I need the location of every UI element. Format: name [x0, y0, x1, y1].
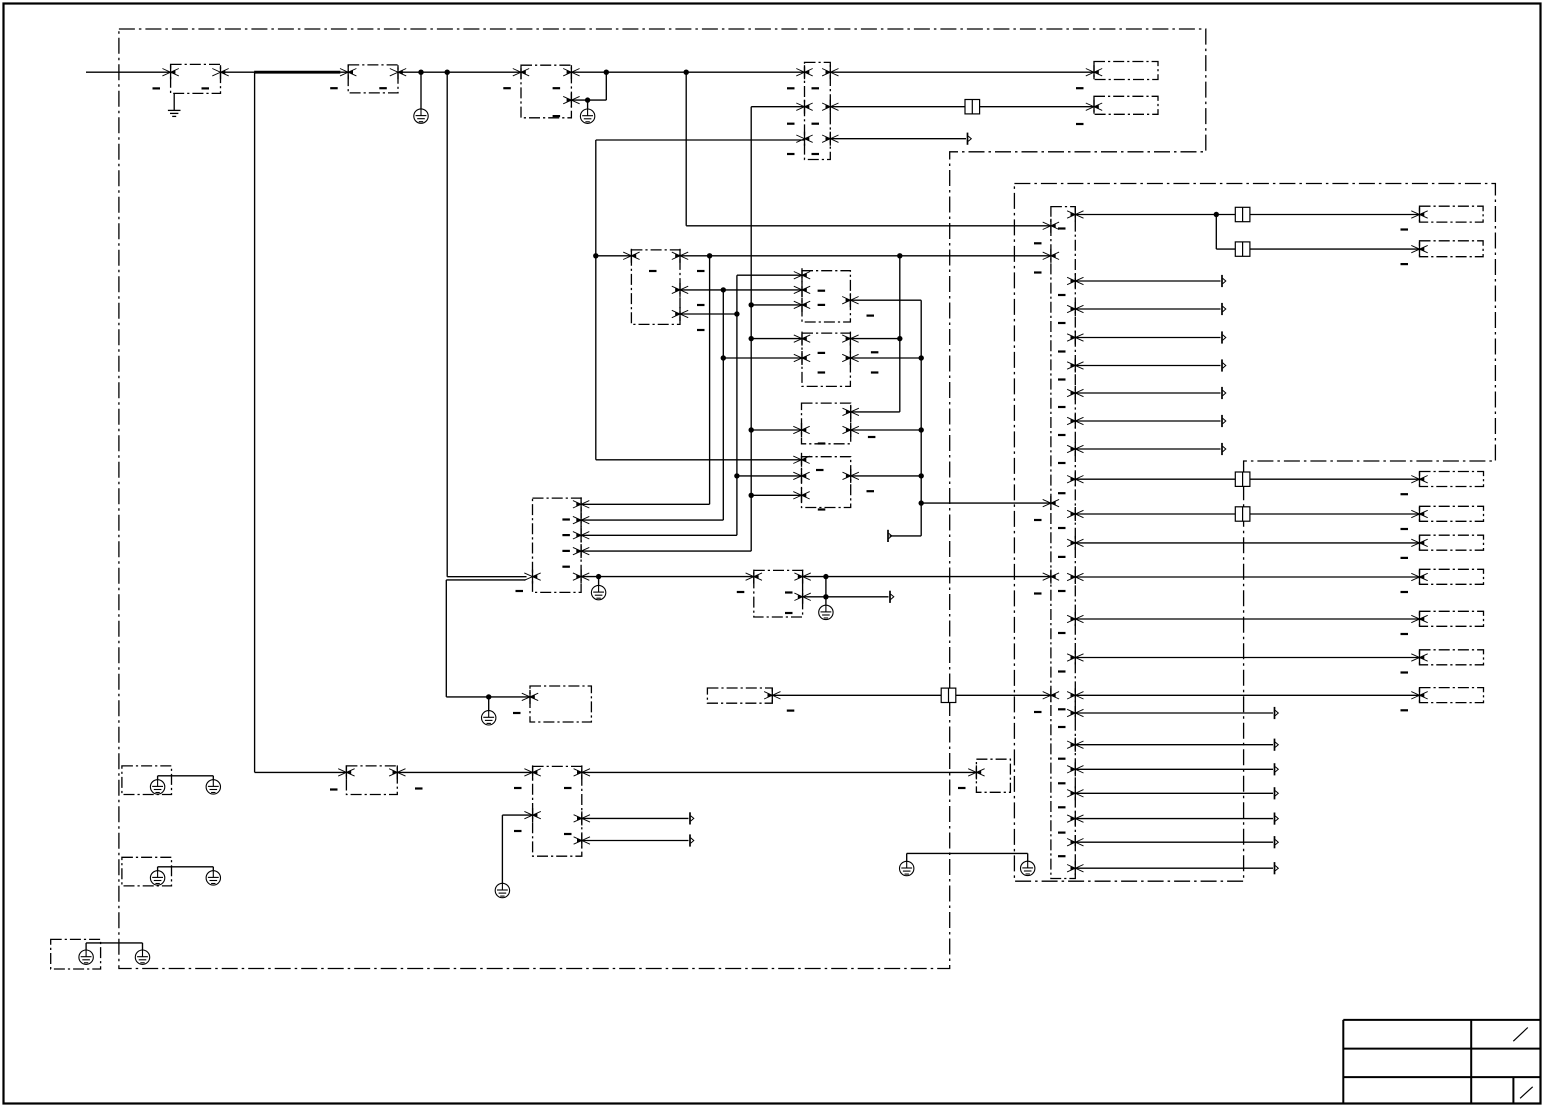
- ground PE: [495, 883, 509, 897]
- connector pin: [212, 65, 228, 79]
- pin in e: [1043, 688, 1059, 702]
- feedthrough terminal: [1235, 507, 1250, 521]
- wire: [1075, 280, 1220, 282]
- wire: [1075, 214, 1235, 216]
- wire: [751, 304, 802, 306]
- connector X5: [631, 250, 680, 325]
- cable end: [1275, 707, 1279, 719]
- pin: [1411, 208, 1427, 222]
- junction: [707, 253, 712, 258]
- connector pin: [796, 100, 812, 114]
- pin: [1411, 472, 1427, 486]
- enclosure boundary cabinet 2: [1014, 184, 1495, 882]
- wire: [398, 71, 521, 73]
- ground PE: [150, 780, 164, 794]
- pin: [1086, 65, 1102, 79]
- pin: [1086, 100, 1102, 114]
- pin labels: [1401, 557, 1409, 559]
- wire: [1075, 337, 1220, 339]
- junction: [596, 574, 601, 579]
- wire: [581, 550, 751, 552]
- cable end: [1275, 739, 1279, 751]
- junction: [919, 473, 924, 478]
- wire: [680, 313, 737, 315]
- wire: [596, 459, 802, 461]
- terminal T8: [1420, 569, 1484, 584]
- wire to PE: [420, 72, 422, 109]
- pin out: [1067, 861, 1083, 875]
- junction: [823, 594, 828, 599]
- wire: [581, 534, 737, 536]
- connector pin: [573, 544, 589, 558]
- wire to PE: [598, 577, 600, 586]
- wire drop x596: [595, 140, 597, 460]
- wire: [605, 72, 607, 100]
- wire: [751, 494, 801, 496]
- junction: [585, 97, 590, 102]
- terminal T4: [1420, 241, 1484, 257]
- pin labels: [1401, 633, 1409, 635]
- wire: [737, 475, 802, 477]
- ground PE: [206, 871, 220, 885]
- pin labels: [513, 712, 521, 714]
- wire: [1075, 818, 1273, 820]
- junction: [823, 574, 828, 579]
- pin labels: [1034, 242, 1042, 244]
- terminal T7: [1420, 535, 1484, 550]
- pin: [1411, 688, 1427, 702]
- wire to PE: [488, 697, 490, 711]
- wire: [581, 576, 754, 578]
- junction: [445, 70, 450, 75]
- PE box W2: [122, 857, 172, 886]
- pin labels: [1401, 528, 1409, 530]
- connector pin: [764, 688, 780, 702]
- wire return: [446, 579, 525, 581]
- connector pin: [796, 132, 812, 146]
- junction: [749, 427, 754, 432]
- pin out: [1067, 706, 1083, 720]
- connector pin: [623, 249, 639, 263]
- wire: [340, 71, 348, 73]
- pin out: [1067, 762, 1083, 776]
- wire: [1216, 248, 1235, 250]
- connector pin: [794, 298, 810, 312]
- pin out: [1067, 274, 1083, 288]
- title block slashes: [1513, 1028, 1528, 1042]
- connector pin: [794, 570, 810, 584]
- wire: [1075, 365, 1220, 367]
- ground PE: [414, 109, 428, 123]
- pin labels: [153, 87, 161, 89]
- wire: [1075, 841, 1273, 843]
- junction: [897, 253, 902, 258]
- connector pin: [822, 132, 838, 146]
- connector pin: [842, 332, 858, 346]
- wire x921: [920, 300, 922, 536]
- cable end: [1275, 787, 1279, 799]
- connector strip X20: [1051, 207, 1075, 879]
- wire: [447, 576, 526, 578]
- junction: [919, 355, 924, 360]
- wire: [1075, 308, 1220, 310]
- junction: [749, 336, 754, 341]
- wire: [956, 694, 1051, 696]
- junction: [604, 70, 609, 75]
- wire: [142, 943, 144, 950]
- terminal T9: [1420, 611, 1484, 626]
- connector pin: [162, 65, 178, 79]
- wire: [255, 771, 347, 773]
- wire: [582, 840, 689, 842]
- ground PE: [580, 109, 594, 123]
- wire: [830, 106, 965, 108]
- connector pin: [524, 808, 540, 822]
- connector pin: [746, 570, 762, 584]
- wire ladder x723: [722, 290, 724, 520]
- wire: [1250, 214, 1420, 216]
- junction: [593, 253, 598, 258]
- terminal T2: [1094, 96, 1158, 114]
- pin: [1411, 242, 1427, 256]
- wire: [1250, 478, 1420, 480]
- junction: [749, 493, 754, 498]
- pin out: [1067, 359, 1083, 373]
- connector pin: [843, 469, 859, 483]
- wire: [397, 771, 532, 773]
- wire: [596, 139, 805, 141]
- wire: [680, 289, 802, 291]
- connector X8: [530, 686, 591, 722]
- cable end: [690, 834, 694, 846]
- pin labels: [1401, 671, 1409, 673]
- pin labels: [503, 87, 511, 89]
- pin out: [1067, 386, 1083, 400]
- connector X10: [346, 766, 397, 795]
- connector pin: [563, 65, 579, 79]
- junction: [734, 311, 739, 316]
- pin out: [1067, 472, 1083, 486]
- wire: [1027, 853, 1029, 861]
- pin labels: [1401, 493, 1409, 495]
- connector pin: [794, 590, 810, 604]
- wire: [1075, 867, 1273, 869]
- ground PE: [900, 861, 914, 875]
- feedthrough terminal: [1235, 242, 1250, 256]
- wire to PE: [825, 597, 827, 605]
- wire: [830, 71, 1094, 73]
- wire: [1075, 712, 1273, 714]
- pin labels: [1401, 709, 1409, 711]
- cable end: [1275, 813, 1279, 825]
- pin in a: [1043, 219, 1059, 233]
- junction: [1214, 212, 1219, 217]
- connector K2: [802, 333, 850, 386]
- junction: [721, 355, 726, 360]
- connector pin: [574, 834, 590, 848]
- wire L1 feed: [86, 71, 171, 73]
- wire: [212, 867, 214, 871]
- cable end: [1222, 443, 1226, 455]
- cable end: [1222, 331, 1226, 343]
- wire: [212, 776, 214, 780]
- wire: [1075, 744, 1273, 746]
- cable end: [1222, 275, 1226, 287]
- wire: [890, 535, 922, 537]
- pin out: [1067, 688, 1083, 702]
- wire: [157, 867, 159, 871]
- ground PE: [819, 605, 833, 619]
- connector K3: [802, 403, 851, 444]
- pin: [1411, 651, 1427, 665]
- cable end: [1222, 359, 1226, 371]
- wire: [830, 138, 966, 140]
- cable end: [1222, 387, 1226, 399]
- feedthrough terminal: [941, 688, 956, 702]
- connector pin: [573, 497, 589, 511]
- wire: [446, 696, 530, 698]
- wire ladder x710: [709, 256, 711, 504]
- wire ladder x737: [736, 275, 738, 535]
- wire: [1075, 768, 1273, 770]
- wire: [1075, 448, 1220, 450]
- pin: [1411, 507, 1427, 521]
- connector X2: [348, 65, 398, 93]
- wire: [772, 694, 941, 696]
- pin out: [1067, 812, 1083, 826]
- pin out: [1067, 786, 1083, 800]
- connector pin: [389, 765, 405, 779]
- connector pin: [513, 65, 529, 79]
- connector pin: [968, 765, 984, 779]
- pin out: [1067, 612, 1083, 626]
- wire: [851, 411, 900, 413]
- wire: [1075, 392, 1220, 394]
- wire: [1075, 618, 1419, 620]
- connector pin: [573, 570, 589, 584]
- wire: [1075, 542, 1419, 544]
- connector pin: [574, 811, 590, 825]
- pin labels: [1058, 227, 1066, 229]
- junction: [684, 70, 689, 75]
- pin: [1411, 612, 1427, 626]
- cable end: [690, 812, 694, 824]
- connector pin: [793, 423, 809, 437]
- PE box W1: [122, 766, 172, 795]
- connector pin: [522, 690, 538, 704]
- wire: [850, 338, 899, 340]
- connector pin: [524, 570, 540, 584]
- connector pin: [563, 93, 579, 107]
- connector pin: [573, 513, 589, 527]
- wire ladder x751: [750, 107, 752, 551]
- pin labels: [787, 709, 795, 711]
- connector pin: [574, 765, 590, 779]
- pin out: [1067, 442, 1083, 456]
- junction: [734, 473, 739, 478]
- pin in b: [1043, 249, 1059, 263]
- cable end: [888, 530, 892, 542]
- pin in d: [1043, 570, 1059, 584]
- ground PE: [206, 780, 220, 794]
- pin out: [1067, 536, 1083, 550]
- pin out: [1067, 570, 1083, 584]
- junction: [919, 427, 924, 432]
- wire: [850, 357, 921, 359]
- cable end: [1275, 836, 1279, 848]
- connector pin: [842, 293, 858, 307]
- wire: [751, 338, 802, 340]
- connector K1: [802, 271, 850, 322]
- wire to PE: [587, 100, 589, 109]
- connector X4: [805, 62, 831, 159]
- connector pin: [390, 65, 406, 79]
- wire: [596, 255, 632, 257]
- wire: [751, 429, 801, 431]
- wire: [825, 577, 827, 597]
- connector pin: [524, 765, 540, 779]
- wire: [1075, 694, 1419, 696]
- connector K4: [802, 457, 851, 508]
- pin out: [1067, 414, 1083, 428]
- pin labels: [958, 787, 966, 789]
- wire: [85, 943, 87, 950]
- wire: [803, 576, 1051, 578]
- terminal T1: [1094, 62, 1158, 80]
- wire: [571, 71, 804, 73]
- pin labels: [1401, 228, 1409, 230]
- terminal X12: [976, 759, 1010, 792]
- pin labels: [1401, 591, 1409, 593]
- wire: [1250, 513, 1420, 515]
- connector pin: [793, 453, 809, 467]
- earth ground at X1: [168, 93, 181, 116]
- wire: [502, 814, 532, 816]
- pin out 1: [1067, 208, 1083, 222]
- wire drop x686: [685, 72, 687, 226]
- wire: [581, 519, 723, 521]
- wire: [1250, 248, 1420, 250]
- junction: [418, 70, 423, 75]
- cable end: [1222, 415, 1226, 427]
- wire: [221, 71, 255, 73]
- wire to PE: [501, 815, 503, 883]
- pin labels: [737, 591, 745, 593]
- ground PE: [1020, 861, 1034, 875]
- wire: [980, 106, 1094, 108]
- wire: [158, 775, 214, 777]
- pin out: [1067, 331, 1083, 345]
- feedthrough terminal: [1235, 207, 1250, 221]
- feedthrough terminal: [1235, 472, 1250, 486]
- connector pin: [842, 351, 858, 365]
- connector pin: [822, 100, 838, 114]
- cable end: [1275, 862, 1279, 874]
- pin labels: [816, 469, 824, 471]
- pin: [1411, 570, 1427, 584]
- connector pin: [672, 307, 688, 321]
- pin labels: [330, 788, 338, 790]
- wire: [158, 866, 214, 868]
- wire: [1075, 420, 1220, 422]
- connector X3: [521, 65, 571, 118]
- pin in c: [1043, 496, 1059, 510]
- terminal X9: [707, 688, 772, 703]
- ground PE: [79, 950, 93, 964]
- wire drop x254: [254, 72, 256, 772]
- PE box W3: [51, 939, 101, 969]
- wire: [907, 852, 1028, 854]
- wire: [1075, 792, 1273, 794]
- connector pin: [573, 528, 589, 542]
- wire: [582, 771, 977, 773]
- junction: [897, 336, 902, 341]
- wire PE link: [906, 853, 908, 861]
- ground PE: [482, 711, 496, 725]
- wire: [86, 942, 142, 944]
- title block: [1343, 1020, 1540, 1104]
- wire: [851, 429, 922, 431]
- ground PE: [150, 871, 164, 885]
- wire: [921, 502, 1051, 504]
- connector pin: [843, 423, 859, 437]
- ground PE: [135, 950, 149, 964]
- wire branch: [1215, 215, 1217, 250]
- pin labels: [1076, 87, 1084, 89]
- wire: [851, 475, 922, 477]
- connector pin: [822, 65, 838, 79]
- wire: [850, 299, 921, 301]
- connector pin: [794, 283, 810, 297]
- pin labels: [818, 290, 826, 292]
- connector pin: [843, 405, 859, 419]
- connector pin: [794, 351, 810, 365]
- wire: [571, 99, 606, 101]
- wire drop x447: [446, 72, 448, 577]
- connector pin: [794, 268, 810, 282]
- pin labels: [649, 270, 657, 272]
- junction: [486, 694, 491, 699]
- connector pin: [793, 469, 809, 483]
- pin labels: [787, 87, 795, 89]
- cable end: [968, 133, 972, 145]
- pin: [1411, 536, 1427, 550]
- connector pin: [796, 65, 812, 79]
- terminal T6: [1420, 506, 1484, 521]
- wire: [680, 255, 1051, 257]
- connector pin: [793, 488, 809, 502]
- wire: [751, 106, 804, 108]
- wire: [737, 274, 802, 276]
- wire: [582, 817, 689, 819]
- ground PE: [591, 585, 605, 599]
- feedthrough terminal: [965, 100, 980, 114]
- pin labels: [514, 787, 522, 789]
- pin labels: [868, 436, 876, 438]
- junction: [721, 287, 726, 292]
- connector pin: [672, 283, 688, 297]
- wire: [1075, 513, 1235, 515]
- terminal T5: [1420, 472, 1484, 487]
- wire: [686, 225, 1051, 227]
- wire: [445, 580, 447, 697]
- enclosure boundary cabinet 1: [119, 29, 1206, 969]
- pin out: [1067, 651, 1083, 665]
- pin labels: [562, 518, 570, 520]
- pin out: [1067, 507, 1083, 521]
- junction: [749, 302, 754, 307]
- wire: [1075, 478, 1235, 480]
